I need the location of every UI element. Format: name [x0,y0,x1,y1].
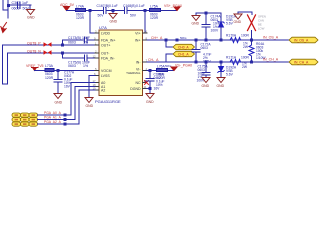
svg-text:OUT8_N: OUT8_N [27,49,41,53]
wire [7,53,9,84]
svg-text:10uF: 10uF [82,36,90,40]
node junction [64,123,67,126]
svg-text:VOCM: VOCM [101,69,112,73]
node junction [165,39,168,42]
wire LVDD drop [89,11,91,34]
wire port branch top [166,40,173,47]
ferrite L73A labels [45,64,54,80]
ground [109,14,117,19]
wire IN+ out [147,39,289,41]
svg-text:120R: 120R [157,76,166,80]
svg-text:NC: NC [135,81,141,85]
node junction [220,61,223,64]
svg-text:120R: 120R [76,16,85,20]
capacitor C176A labels [154,73,165,91]
ferrite bead L73A [45,69,54,72]
wire [57,71,59,80]
svg-text:C167(B): C167(B) [97,4,110,8]
svg-text:1uF: 1uF [22,1,29,5]
DNP cross component [248,15,256,31]
capacitor C363 labels [12,1,30,10]
wire [62,40,64,45]
node junction [195,39,198,42]
wire [57,82,59,93]
wire [63,39,85,41]
capacitor C174A labels [211,15,222,33]
svg-text:FDA_IN+: FDA_IN+ [101,38,116,42]
wire OUT8_P [3,44,100,46]
ferrite L74A labels [76,4,85,20]
wire [107,10,125,12]
svg-text:100V: 100V [211,29,220,33]
svg-text:OUT-: OUT- [101,51,110,55]
zener D192A labels [226,66,237,77]
node junction [149,87,152,90]
svg-text:0.1uF: 0.1uF [136,4,145,8]
ground bracket for DNP [238,12,252,15]
wire [88,39,100,41]
power symbol VS+ arrow [174,7,180,11]
wire VS+ drop [144,11,146,34]
wire [3,83,8,85]
ferrite bead L76A [157,69,168,72]
svg-text:THERMAL: THERMAL [126,71,141,75]
wire A2 [38,90,96,124]
wire [54,70,99,72]
node junction [195,61,198,64]
svg-text:IN_CH_A: IN_CH_A [294,61,309,65]
svg-text:L74A: L74A [76,4,85,8]
svg-text:120R: 120R [150,16,159,20]
svg-text:R171A: R171A [226,56,237,60]
wire [21,4,31,6]
wire [29,5,31,9]
svg-text:120R: 120R [45,76,54,80]
capacitor C177A labels [64,71,75,89]
svg-text:OUT8_P: OUT8_P [27,41,41,45]
node junction [205,61,208,64]
ferrite bead L74A [76,9,86,12]
capacitor C177A [54,80,62,83]
wire port branch bottom [166,54,173,62]
wire VOCM [35,70,46,72]
node junction [112,9,115,12]
node junction [220,39,223,42]
svg-text:GND: GND [146,100,154,104]
node junction [61,44,64,47]
jumper port block row A1 [12,118,38,122]
svg-text:IN_CH_A: IN_CH_A [263,58,279,62]
wire DGND [147,88,150,90]
svg-text:0603: 0603 [68,41,76,45]
svg-text:DGND: DGND [130,87,141,91]
capacitor C175(B) [85,55,88,61]
capacitor C174A shunt top [205,13,207,24]
svg-text:CH-_A: CH-_A [148,58,159,62]
wire [143,32,145,34]
pin stubs right [143,33,148,89]
resistor R170A [230,38,241,43]
wire [90,32,99,34]
svg-text:50V: 50V [130,13,137,17]
svg-text:C168(B): C168(B) [123,4,136,8]
svg-text:0603: 0603 [201,46,209,50]
svg-text:100R: 100R [241,56,250,60]
resistor R171A [230,60,241,65]
wire [2,0,4,10]
svg-text:11: 11 [144,85,147,89]
svg-text:16V: 16V [64,85,71,89]
resistor R04A labels [256,42,266,60]
svg-text:IN+: IN+ [135,38,141,42]
DNP note text [258,15,266,31]
svg-text:L75A: L75A [150,4,159,8]
wire [62,53,64,58]
wire [161,10,178,12]
svg-text:LVDD: LVDD [101,31,111,35]
ground rail top [196,12,221,14]
capacitor C172A bridge [195,40,197,49]
wire [7,0,9,18]
svg-text:PGA_A0_A: PGA_A0_A [44,111,62,115]
svg-text:OUT+: OUT+ [101,43,110,47]
svg-text:5.6V: 5.6V [226,73,234,77]
svg-text:0603: 0603 [12,6,20,10]
zener diode D192A bottom [220,62,222,66]
wire [8,4,31,6]
node junction [144,9,147,12]
capacitor C175A labels [197,65,209,83]
jumper port pin marks [15,114,36,125]
pin numbers [93,29,148,90]
power symbol VREF bar [32,68,39,71]
port CH1_A [173,51,195,56]
svg-text:LOW: LOW [258,27,265,31]
op-amp U7A body [99,30,143,96]
node junction [64,118,67,121]
capacitor C176A [149,71,151,79]
svg-text:R170A: R170A [226,34,237,38]
svg-text:L73A: L73A [45,64,54,68]
jumper port block row A2 [12,122,38,126]
capacitor C363 [18,2,21,9]
svg-text:GND: GND [86,104,94,108]
capacitor C175A shunt bottom [205,62,207,72]
svg-text:5.6V: 5.6V [226,22,234,26]
power symbol ADC_5V arrow [64,7,70,11]
power symbol VS- arrow [171,67,177,71]
svg-text:GND: GND [192,21,200,25]
port IN_OS_A [289,37,318,43]
ferrite L76A labels [157,64,166,80]
svg-text:16V: 16V [154,87,161,91]
svg-text:12: 12 [93,54,97,58]
node junction [7,4,10,7]
node junction [205,39,208,42]
svg-text:A2: A2 [101,88,105,92]
ferrite bead L75A [150,9,161,12]
resistor R171A labels [226,56,250,70]
svg-text:LVSS: LVSS [101,74,110,78]
node junction [250,39,253,42]
no-ERC marker OUT8_N [44,50,52,55]
resistor R04A vertical [251,40,253,45]
node junction [149,69,152,72]
resistor R170A labels [226,34,250,50]
ground LVSS [85,98,93,103]
capacitor C172A labels [201,43,212,64]
svg-text:PGA_A2_A: PGA_A2_A [44,120,62,124]
wire OUT8_P feed [2,45,4,84]
ferrite L75A labels [150,4,159,20]
svg-text:2W: 2W [242,65,248,69]
port CH0_A [173,44,195,49]
node junction [64,114,67,117]
svg-text:PGA_A1_A: PGA_A1_A [44,116,62,120]
ground [202,78,210,83]
svg-text:C363: C363 [12,1,21,5]
wire [195,13,197,15]
ground [27,10,35,15]
svg-text:IN_OS_A: IN_OS_A [294,39,309,43]
ground top-left [192,16,200,21]
svg-text:0.1uF: 0.1uF [109,4,118,8]
svg-text:GND: GND [27,16,35,20]
pin stubs left [95,33,99,90]
svg-text:1%: 1% [83,64,88,68]
svg-text:CH0_A: CH0_A [178,46,189,50]
wire LVSS to ground [89,76,95,98]
capacitor C167(B) [104,8,107,14]
wire [251,31,253,41]
node junction [250,61,253,64]
wire [128,10,150,12]
port IN_CH_A [289,59,318,65]
zener diode D191A top [220,13,222,21]
ground [217,78,225,83]
node junction [57,69,60,72]
svg-text:GND: GND [202,84,210,88]
wire OUT8_N [8,52,100,54]
node junction [61,52,64,55]
svg-text:CH+_A: CH+_A [151,36,163,40]
no-ERC marker OUT8_P [44,42,52,47]
pin names left [101,31,116,92]
svg-text:U7A: U7A [99,25,107,30]
capacitor C168(B) [125,8,128,14]
jumper port block row A0 [12,113,38,117]
svg-text:FDA_IN-: FDA_IN- [101,56,115,60]
pin names right [126,31,141,91]
wire 5V rail [67,10,104,12]
svg-text:50V: 50V [98,13,105,17]
power symbol VEE arrow [1,23,7,33]
wire [112,11,114,14]
capacitor C173(B) [85,37,88,43]
svg-text:50hs: 50hs [180,36,187,40]
svg-text:IN_OS_A: IN_OS_A [263,36,279,40]
node junction [89,9,92,12]
ground [54,94,62,99]
svg-text:0603: 0603 [68,64,76,68]
wire [88,57,100,59]
svg-text:16: 16 [144,29,148,33]
svg-text:100R: 100R [241,34,250,38]
svg-text:GND: GND [110,19,118,23]
svg-text:CH1_A: CH1_A [178,53,189,57]
capacitor C175 labels [68,61,90,69]
svg-text:C173(B): C173(B) [68,36,81,40]
capacitor C167 labels [97,4,118,18]
no-connect cross NC pin [145,81,149,85]
capacitor C173 labels [68,36,90,45]
node junction [176,39,179,42]
svg-text:GND: GND [234,20,242,24]
svg-text:L76A: L76A [157,64,166,68]
svg-text:GND: GND [55,101,63,105]
wire A1 [38,87,96,120]
wire A0 [38,83,96,116]
wire [3,9,8,11]
svg-text:GND: GND [217,84,225,88]
capacitor C168 labels [123,4,145,18]
svg-text:1%: 1% [83,41,88,45]
wire [63,57,85,59]
zener D191A labels [226,15,237,26]
svg-text:2W: 2W [243,45,249,49]
ground near X [234,14,242,19]
svg-text:PGA4311RGE: PGA4311RGE [95,99,121,104]
wire IN- out [147,61,289,63]
svg-text:VI+: VI+ [135,31,140,35]
ground DGND [146,94,154,99]
node junction [205,12,208,15]
wire VS- out [147,70,174,72]
